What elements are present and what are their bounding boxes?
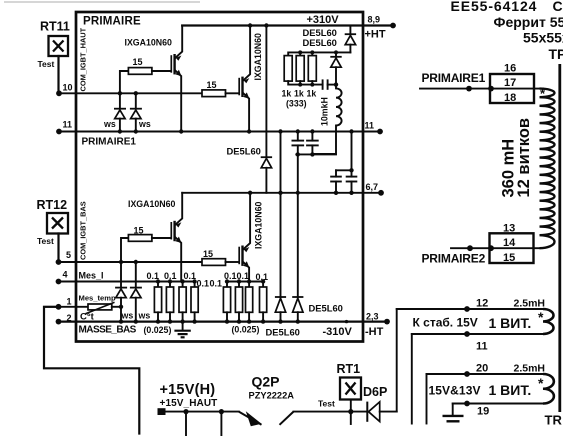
svg-text:15: 15 [133,57,143,67]
node 5 [56,250,71,265]
svg-text:2.5mH: 2.5mH [514,298,546,310]
junction / stub 1 [183,409,188,414]
test point RT12 [37,198,69,246]
wire stub down from node 11 winding [411,334,413,424]
node 12 [476,298,545,310]
svg-text:PRIMAIRE1: PRIMAIRE1 [422,71,486,85]
wire riser to gate resistor R bas1 [121,238,128,262]
junction dots on rail 6,7 [248,191,252,195]
wire Mes_I bus (left shunt group) [59,281,195,283]
resistor 15 (lower-left gate) [128,226,171,242]
junction +310V rail / IGBT2 collector [248,23,252,27]
svg-text:Феррит 55: Феррит 55 [494,14,563,30]
svg-text:+310V: +310V [307,14,340,26]
wire COM_IGBT_HAUT (node 10 rail) [59,92,202,94]
svg-text:IXGA10N60: IXGA10N60 [128,199,176,209]
wire PRIMAIRE1 rail (node 11) [59,131,380,133]
svg-text:D6P: D6P [363,385,387,399]
svg-text:Mes_I: Mes_I [79,271,104,281]
wire RT12 to node 5 [57,234,59,263]
resistor 0.1 (R4) [260,279,267,324]
resistor 0.1 (R2) [235,279,242,324]
wire winding 19 bottom [453,403,543,405]
junction +310V rail / clamp diode column [264,23,268,27]
svg-text:К стаб. 15V: К стаб. 15V [413,316,478,330]
node 11 (left) [56,120,72,135]
capacitor (snubber left) [330,170,342,193]
wire riser D6P to winding 12/11 [396,309,398,412]
svg-text:COM_IGBT_HAUT: COM_IGBT_HAUT [79,27,88,91]
pad +15V [158,408,166,415]
svg-text:2,3: 2,3 [366,312,379,322]
svg-text:PZY2222A: PZY2222A [249,391,295,401]
resistor 0.1 (L1) [154,279,161,324]
wire riser to gate resistor R haut1 [120,71,128,93]
capacitor (mid pair 1 left) [292,132,305,155]
svg-text:Mes_temp: Mes_temp [79,294,116,303]
svg-text:DE5L60: DE5L60 [309,303,343,314]
svg-text:PRIMAIRE2: PRIMAIRE2 [422,252,486,266]
wire descender from rail 11 to lower diode [280,132,282,298]
svg-text:19: 19 [477,406,489,418]
svg-text:6,7: 6,7 [366,182,379,192]
svg-text:14: 14 [503,237,516,249]
diode ws (lower 2) [130,262,150,322]
svg-text:-310V: -310V [323,326,353,338]
svg-text:1: 1 [67,297,72,307]
node 2,3 -HT [365,312,390,339]
svg-text:55x55x2: 55x55x2 [523,30,563,46]
svg-text:15: 15 [207,80,217,90]
inductor 10mkH [314,85,342,154]
svg-text:+15V(H): +15V(H) [160,382,216,398]
svg-text:DE5L60: DE5L60 [303,37,337,48]
svg-text:IXGA10N60: IXGA10N60 [253,33,263,81]
resistor 1k (b) [294,50,304,98]
diode DE5L60 (middle clamp, crosses rail) [227,26,273,193]
capacitor (snubber right) [346,170,358,193]
svg-text:1k: 1k [294,89,304,99]
transistor Q2P PZY2222A (partially cut) [239,374,294,427]
primary winding 360 mH (12 turns) [500,86,555,248]
resistor 1k (c) [307,50,317,98]
diode DE5L60 (lower 2) [292,297,343,322]
svg-text:ws: ws [121,311,134,321]
svg-text:1 ВИТ.: 1 ВИТ. [489,382,532,398]
resistor 0.1 (R1) [223,279,230,324]
node 10 [56,83,72,97]
pin box 13/14/15 [490,223,534,265]
thermistor Mes_temp [44,294,123,323]
svg-text:Test: Test [318,399,335,409]
transformer core line [558,64,561,412]
node 1 Mes_temp [56,297,72,310]
svg-text:ws: ws [138,119,151,129]
diode ws (upper 1) [103,93,126,131]
resistor 0.1 (R3) [246,279,253,324]
resistor 0.1 (L2) [166,279,173,324]
node 20 [476,363,545,375]
svg-text:11: 11 [63,120,73,130]
svg-text:ТР: ТР [549,46,563,62]
wire rail 6,7 [182,192,381,194]
wire snubber top bus [336,169,352,171]
wire Q2P collector to D6P [294,411,368,413]
IGBT IXGA10N60 (lower right) [239,193,263,282]
svg-text:12 витков: 12 витков [515,118,533,198]
wire 1k bus bottom [288,81,322,85]
wire stub (second) [426,374,428,424]
wire PRIMAIRE1 to pins 16/17/18 [420,88,543,90]
pin box 16/17/18 [490,63,534,105]
svg-text:(333): (333) [286,99,307,109]
wire +15V rail [166,411,239,413]
svg-text:RT12: RT12 [37,198,68,212]
node 4 Mes_I [56,270,104,285]
junction on node10 wire [118,91,122,95]
node 11 (right stub) [365,121,383,135]
ground (shunt) [174,322,190,338]
svg-text:0.1: 0.1 [224,271,237,281]
svg-text:-HT: -HT [365,326,384,338]
wire winding 11 bottom [412,333,543,335]
svg-text:1k: 1k [282,89,292,99]
diode DE5L60 (top, to +310V) [303,26,357,53]
svg-text:10: 10 [63,83,73,93]
svg-text:Test: Test [37,236,54,246]
svg-text:COM_IGBT_BAS: COM_IGBT_BAS [79,201,88,260]
node 8,9 +HT [365,15,396,41]
svg-text:+15V_HAUT: +15V_HAUT [160,398,218,409]
svg-text:15: 15 [203,249,213,259]
wire winding 20 top [427,373,544,375]
svg-text:IXGA10N60: IXGA10N60 [254,201,264,249]
wire 1k bus top [288,52,350,55]
svg-text:5: 5 [66,250,71,260]
node 2 [56,313,72,325]
svg-text:15: 15 [503,252,515,264]
svg-text:(0.025): (0.025) [232,325,260,335]
svg-text:16: 16 [504,63,516,75]
diode ws (lower 1) [115,262,133,322]
wire COM_IGBT_BAS (node 5 rail) [59,261,203,263]
svg-text:Сердечник: Сердечник [553,0,563,14]
wire winding 12 top [397,308,543,310]
svg-text:4: 4 [63,270,68,280]
test point RT11 [38,20,70,70]
snubber riser [351,132,353,171]
svg-text:IXGA10N60: IXGA10N60 [125,38,173,48]
svg-text:1 ВИТ.: 1 ВИТ. [489,315,532,331]
svg-text:11: 11 [476,341,488,353]
svg-text:12: 12 [476,298,488,310]
svg-text:15V&13V: 15V&13V [429,384,481,398]
svg-text:TR: TR [545,413,563,428]
test point RT1 [337,362,362,400]
resistor 15 (upper-left gate) [128,57,171,74]
svg-text:2.5mH: 2.5mH [514,363,546,375]
IGBT IXGA10N60 (upper left) [125,26,183,132]
diode ws (upper 2) [130,93,151,131]
svg-text:DE5L60: DE5L60 [227,146,261,157]
svg-text:Test: Test [38,59,55,69]
resistor 1k (a) [282,56,293,99]
diode D6P [363,385,397,422]
resistor 15 (lower-right gate) [202,249,239,265]
svg-text:17: 17 [504,77,516,89]
svg-text:0.1: 0.1 [210,279,223,289]
svg-text:MASSE_BAS: MASSE_BAS [79,325,137,336]
junction / stub 2 [219,409,224,414]
svg-text:20: 20 [476,363,488,375]
wire MASSE_BAS rail (-310V) [59,321,388,323]
wire node1 L-shape to +15V area [44,307,139,434]
svg-text:(0.025): (0.025) [144,325,172,335]
IGBT IXGA10N60 (upper right) [239,26,263,132]
resistor 0.1 (L4) [191,279,198,324]
wire right shunt bus [227,281,263,283]
ground (winding 19) [443,404,464,422]
junction dots on PRIMAIRE1 rail [118,129,122,133]
wire cap bus [296,153,336,155]
wire RT11 to node 10 [57,56,59,93]
svg-text:RT1: RT1 [337,362,361,376]
IGBT IXGA10N60 (lower left) [128,193,182,282]
svg-text:11: 11 [365,121,375,131]
resistor 15 (upper-right gate) [202,80,239,97]
diode DE5L60 (second, above inductor) [303,37,342,85]
capacitor (mid pair 1 right) [306,132,319,155]
svg-text:+HT: +HT [365,29,386,41]
secondary winding 15V&13V (1 turn) [429,374,554,404]
wire RT1 stub [350,400,352,425]
secondary winding К стаб. 15V (1 turn) [413,309,554,334]
svg-text:ws: ws [103,119,116,129]
svg-text:ЕЕ55-64124: ЕЕ55-64124 [451,0,538,14]
svg-text:Q2P: Q2P [252,374,280,390]
svg-text:8,9: 8,9 [368,15,381,25]
module boundary PRIMAIRE [76,12,363,342]
svg-text:ws: ws [138,311,151,321]
svg-text:PRIMAIRE1: PRIMAIRE1 [82,137,137,148]
svg-text:10mkH: 10mkH [320,97,330,126]
svg-text:18: 18 [504,92,516,104]
wire descender from cap bus to lower diode [297,154,299,297]
svg-text:PRIMAIRE: PRIMAIRE [83,16,141,28]
svg-text:1k: 1k [307,89,317,99]
diode DE5L60 (lower 1) [275,297,286,322]
wire PRIMAIRE2 to pins 13/14/15 [451,247,540,249]
node 6,7 [366,182,384,196]
svg-text:DE5L60: DE5L60 [266,327,300,338]
capacitor 333 (series, horizontal) [323,79,339,89]
svg-text:RT11: RT11 [40,20,70,34]
wire +310V rail [182,24,393,26]
resistor 0.1 (L3) [179,279,186,324]
